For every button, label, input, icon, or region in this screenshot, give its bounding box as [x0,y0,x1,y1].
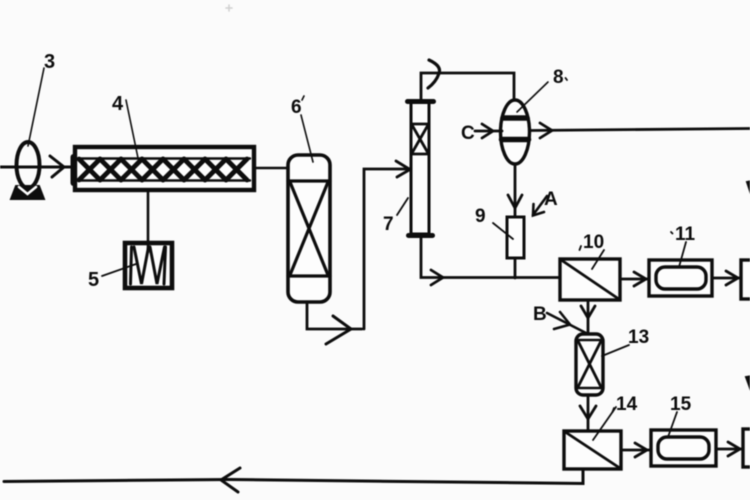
svg-text:8: 8 [553,67,564,88]
arrow A [533,196,547,216]
arrow down into trap 9 [508,195,522,208]
B feed arrow into mixer 13 [547,312,586,333]
box 16 at right edge [743,429,750,467]
leader line 7 [397,198,408,215]
reactor vessel 4 [74,147,255,190]
arrow 11 to edge box [726,271,738,285]
svg-text:15: 15 [670,394,692,415]
wire C feed into separator 8 [475,130,502,133]
leader line 14 [593,407,616,440]
svg-text:A: A [544,189,558,210]
wire separator 8 product line to right edge [530,129,750,131]
svg-text:5: 5 [88,269,99,291]
arrow 10 to 11 [634,272,646,286]
wire trap 9 to bottoms line [514,258,517,278]
partial glyph upper right edge [747,181,750,191]
column 7 [408,102,434,236]
svg-text:14: 14 [616,394,638,415]
arrow into column 7 [396,161,410,177]
arrow C [482,124,493,138]
cooler 5 [125,243,172,288]
leader line 3 [28,68,44,146]
svg-text:B: B [533,304,547,325]
svg-text:3: 3 [44,51,55,73]
arrow on recycle line pointing left [221,468,240,492]
wire mixer 13 down to filter 14 [587,395,590,431]
partial glyph lower right edge [746,376,750,388]
wire vessel 4 to column 6 [254,167,290,169]
leader line 9 [493,223,513,239]
leader line 5 [102,264,136,276]
leader line 13 [602,345,629,356]
wire column 6 bottom outlet [307,302,362,329]
svg-text:6: 6 [291,97,302,118]
wire unit 15 to edge box [716,448,743,451]
arrow 15 to edge box [728,442,740,456]
svg-text:4: 4 [112,93,124,115]
filter 14 [564,431,621,469]
wire unit 11 to edge box [712,277,741,280]
unit 15 [651,430,716,466]
svg-text:C: C [461,123,475,144]
pump 3 [11,142,44,199]
svg-text:7: 7 [383,214,394,235]
arrow 10 down to 13 [581,306,595,318]
mixer 13 [576,334,603,395]
column 6 [288,155,330,302]
recycle return line [4,469,583,484]
trap 9 [507,217,524,258]
arrow on bottom outlet [326,316,351,344]
faint mark top [226,5,232,11]
wire riser to column 7 [364,169,408,329]
arrow 14 to 15 [635,443,647,457]
wire separator 8 bottoms down [514,164,517,217]
arrow on bottoms line [431,270,443,285]
svg-text:13: 13 [628,327,649,348]
wire feed line into pump [0,166,70,169]
filter 10 [560,259,620,300]
leader line 4 [126,100,138,158]
leader line 10 [592,250,604,269]
wire column 7 bottoms to filter 10 [421,238,560,278]
arrow into reactor 4 [50,156,64,177]
arrow on overhead line [428,60,440,88]
leader line 6 [301,115,313,162]
box 12 at right edge [741,260,750,299]
wire filter 10 to unit 11 [620,278,649,281]
svg-text:9: 9 [475,206,486,227]
leader line 15 [668,412,677,437]
arrow on product line [540,123,552,138]
leader line 11 [679,242,686,267]
wire column 7 overhead to separator 8 [421,73,514,101]
wire filter 10 down to mixer 13 [587,300,590,334]
wire vessel 4 down to cooler 5 [147,190,150,247]
arrow 13 down to 14 [580,406,596,419]
svg-text:10: 10 [583,232,604,253]
leader line 8 [517,82,548,112]
wire filter 14 to unit 15 [621,449,651,452]
unit 11 [649,260,712,296]
separator 8 [501,100,530,164]
